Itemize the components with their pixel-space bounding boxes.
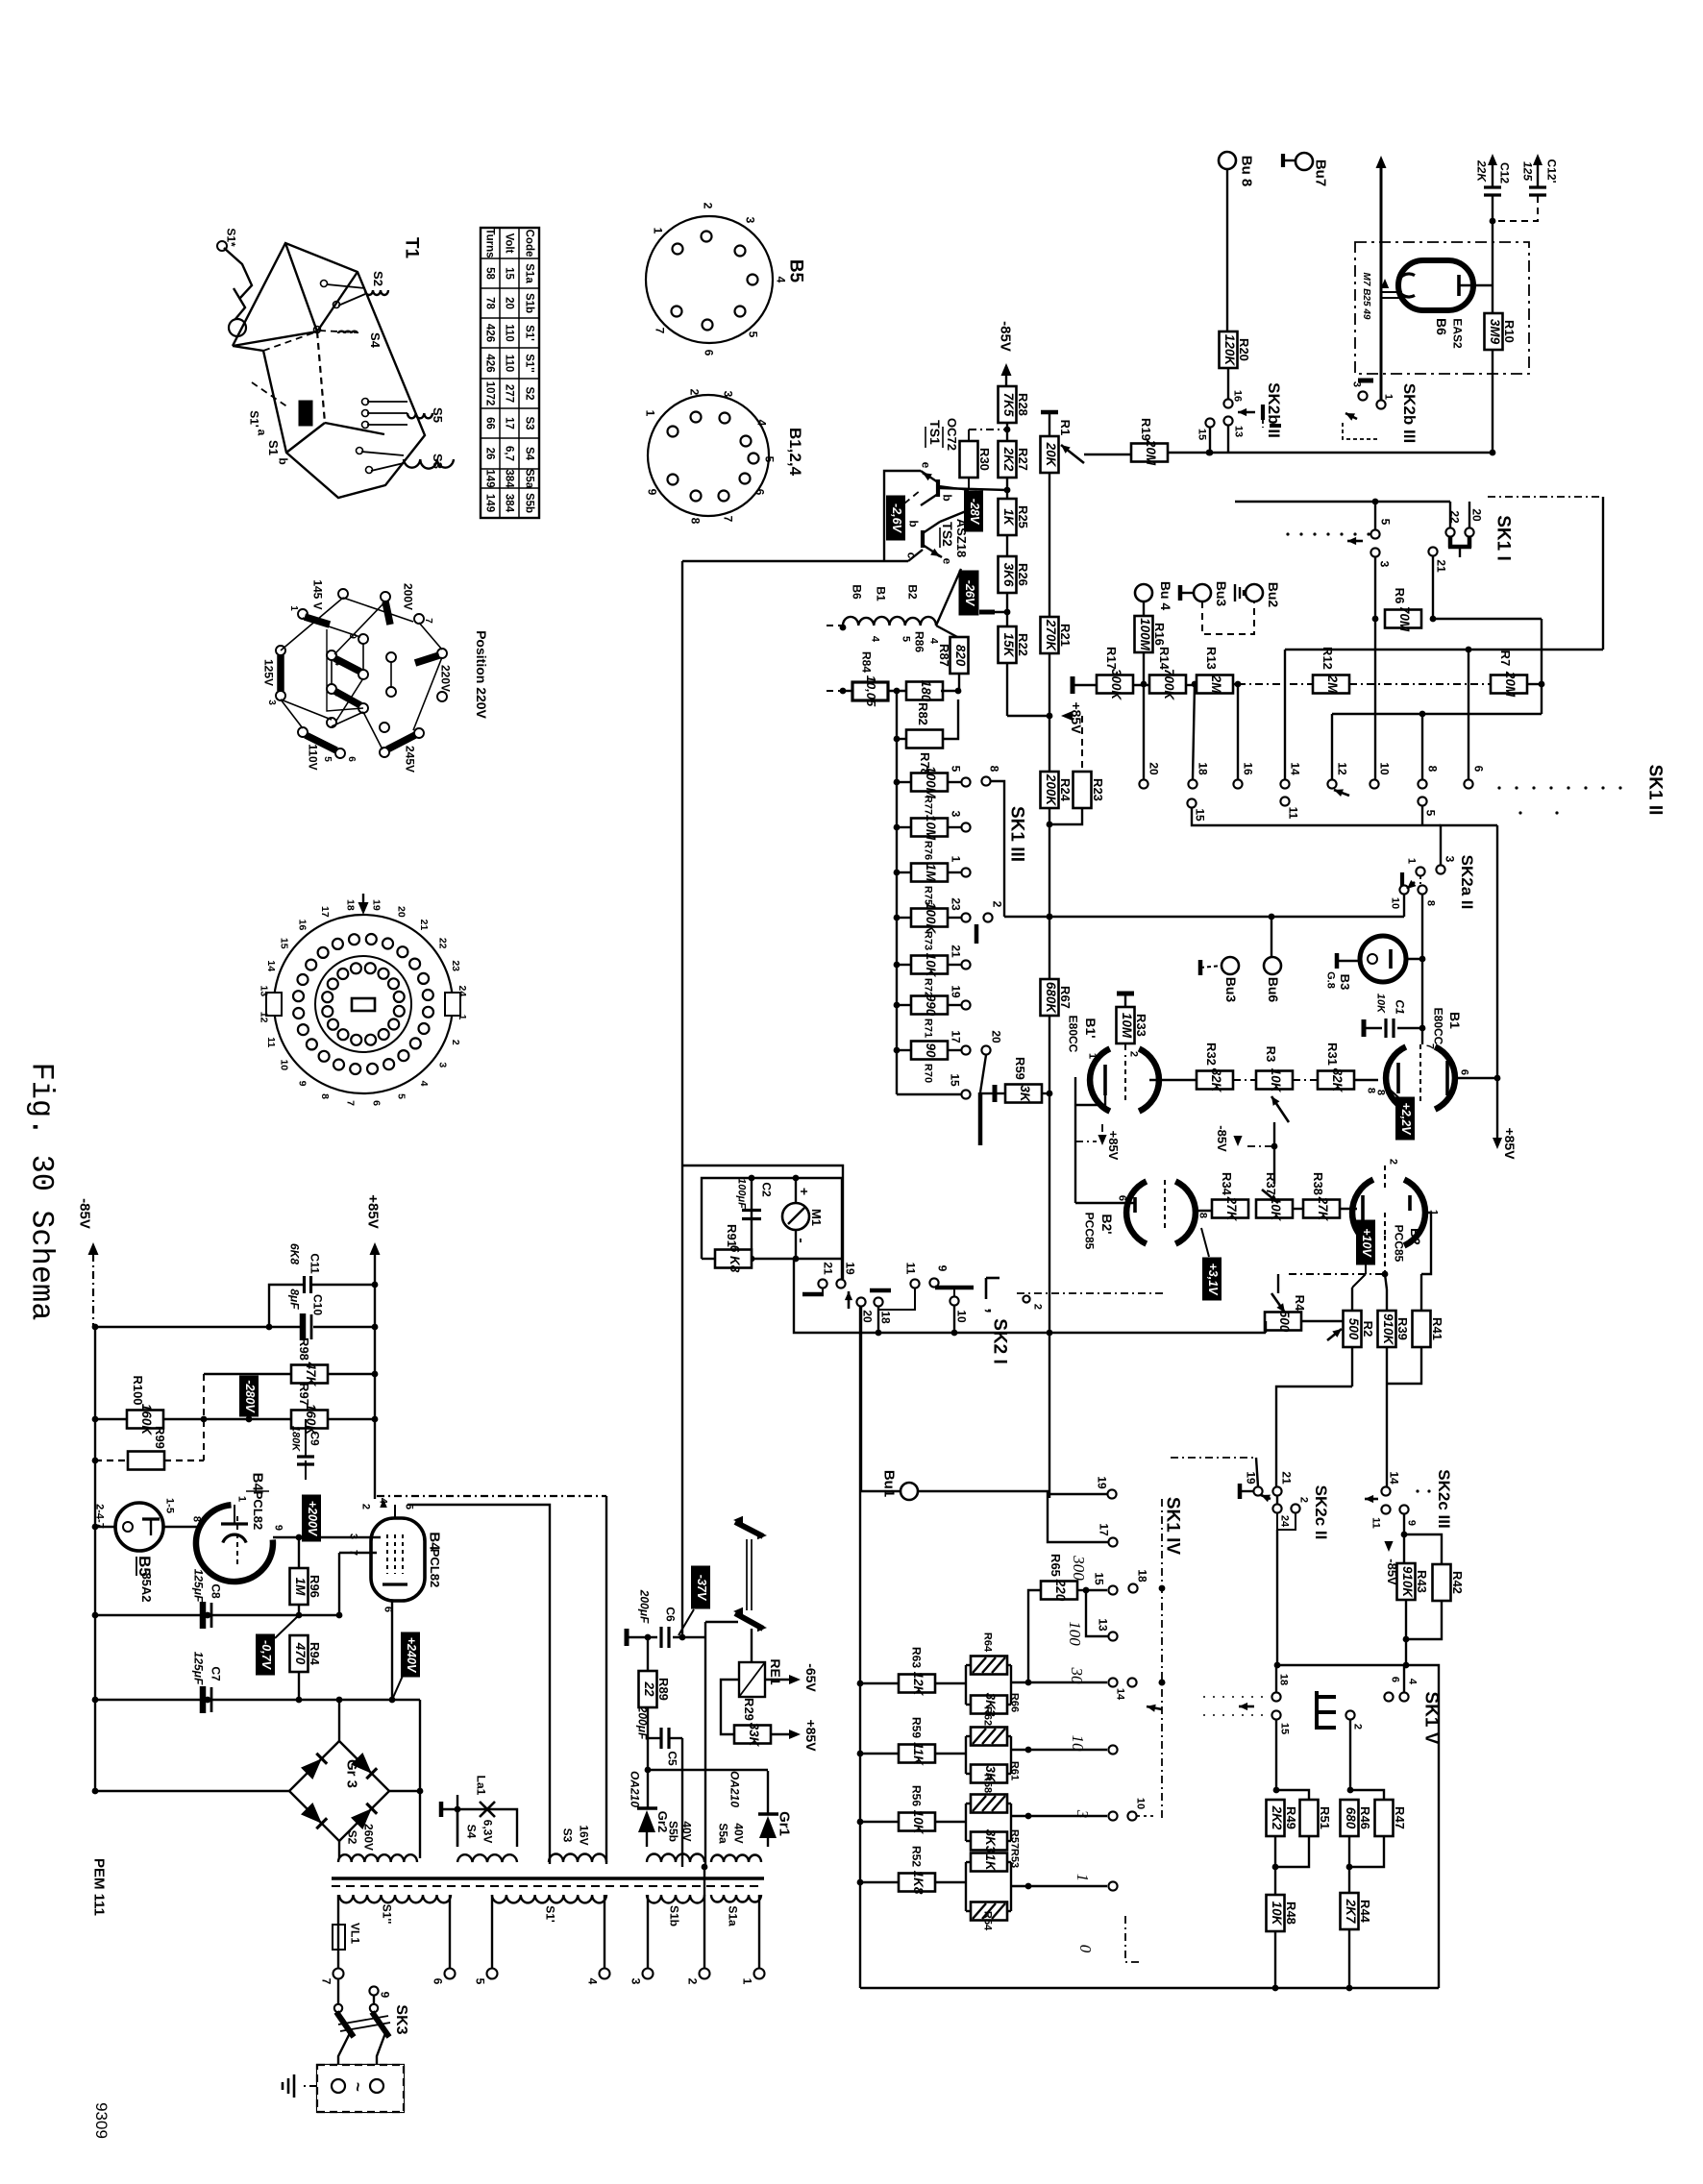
terminal Bu7	[1296, 153, 1313, 170]
+85V bus wire	[374, 1254, 376, 1499]
svg-text:18: 18	[1278, 1674, 1290, 1685]
svg-text:4: 4	[418, 1081, 430, 1087]
wire C11 row	[269, 1285, 303, 1327]
bottom bus wire	[860, 1987, 1439, 1989]
resistor R37 potentiometer	[1256, 1200, 1293, 1218]
parallel trimmer pair R59	[965, 1736, 967, 1774]
svg-text:R49: R49	[1284, 1806, 1298, 1829]
svg-text:B1: B1	[874, 586, 887, 601]
svg-text:125μF: 125μF	[191, 1569, 205, 1603]
svg-text:R3: R3	[1264, 1046, 1278, 1063]
contact 1 SK1 III	[961, 868, 970, 876]
contact 5 SK1 IV	[1108, 1881, 1117, 1890]
contact 7 SK1 IV	[1108, 1811, 1117, 1820]
svg-text:C9: C9	[308, 1431, 321, 1446]
resistor R48	[1267, 1895, 1285, 1931]
svg-text:R59: R59	[1013, 1057, 1027, 1080]
contact 13 SK1 IV	[1108, 1632, 1117, 1640]
svg-text:Bu 8: Bu 8	[1239, 156, 1255, 187]
wire contact 6 vertical	[1468, 650, 1469, 779]
meter enclosure box	[702, 1178, 842, 1259]
svg-text:1: 1	[1383, 394, 1394, 400]
wire S3 S4 secondary ends	[457, 1809, 458, 1847]
wire TS1 emitter loop	[884, 471, 921, 561]
voltage stabiliser tube B5 85A2	[115, 1503, 163, 1551]
svg-text:S5b: S5b	[524, 493, 535, 513]
resistor R34	[1212, 1200, 1248, 1218]
svg-text:R66: R66	[1009, 1693, 1021, 1712]
svg-text:125: 125	[1520, 161, 1534, 181]
svg-text:20M: 20M	[1503, 671, 1518, 698]
svg-text:1: 1	[1406, 858, 1418, 864]
svg-text:22K: 22K	[1474, 160, 1488, 183]
svg-text:M1: M1	[809, 1209, 824, 1226]
svg-text:6: 6	[702, 350, 715, 356]
transformer T1 pictorial	[233, 243, 425, 498]
svg-text:12K: 12K	[911, 1672, 926, 1697]
wire contact 4 up	[1403, 1665, 1405, 1692]
svg-text:2: 2	[360, 1504, 372, 1509]
svg-text:90: 90	[924, 1043, 938, 1058]
svg-text:10K: 10K	[924, 953, 938, 978]
terminal bar R17	[1071, 676, 1075, 694]
svg-text:-26V: -26V	[963, 580, 976, 607]
svg-text:La1: La1	[474, 1776, 487, 1796]
svg-text:2: 2	[1128, 1051, 1140, 1057]
wire bridge dc+	[389, 1790, 420, 1792]
resistor R32	[1197, 1071, 1233, 1090]
wire R1 wiper row	[1084, 454, 1132, 455]
resistor R52	[860, 1881, 899, 1883]
voltage +240V box	[402, 1632, 420, 1677]
triode B4a PCL82	[196, 1505, 273, 1582]
resistor R21	[1041, 617, 1059, 653]
wire Bu8 down	[1226, 169, 1228, 331]
svg-text:B2: B2	[905, 584, 919, 600]
svg-text:B2': B2'	[1099, 1214, 1115, 1234]
svg-text:10: 10	[954, 1310, 968, 1323]
svg-text:20: 20	[396, 906, 407, 918]
svg-text:M7 B25 49: M7 B25 49	[1361, 273, 1371, 320]
resistor R33 10M	[1117, 992, 1134, 996]
svg-text:-0,7V: -0,7V	[259, 1640, 273, 1671]
svg-text:10: 10	[278, 1059, 289, 1070]
triode B1a E80CC	[1090, 1048, 1110, 1111]
resistor R46	[1341, 1800, 1359, 1836]
switch SK2a II	[1436, 865, 1444, 873]
svg-text:+: +	[797, 1188, 812, 1195]
resistor R25	[999, 499, 1017, 535]
dashed link Bu3 Bu2	[1202, 601, 1254, 634]
resistor R17	[1097, 675, 1133, 694]
svg-text:58: 58	[484, 267, 496, 280]
svg-text:110: 110	[504, 355, 515, 373]
svg-text:15: 15	[1092, 1572, 1105, 1585]
svg-text:149: 149	[484, 469, 496, 487]
svg-text:20K: 20K	[1044, 442, 1058, 468]
svg-text:SK3: SK3	[393, 2004, 409, 2034]
svg-text:S2: S2	[524, 386, 535, 400]
wire C8 row	[95, 1614, 339, 1616]
wire contact 2 down to R46	[1349, 1720, 1351, 1790]
wire R98 row	[204, 1373, 291, 1375]
svg-text:3: 3	[436, 1062, 448, 1067]
switch SK2b III	[1358, 391, 1367, 400]
svg-text:e: e	[940, 558, 953, 565]
svg-text:19: 19	[949, 985, 962, 998]
svg-text:3: 3	[266, 699, 277, 705]
wire Bu1 to SK1 IV	[918, 1491, 1108, 1542]
winding S5a 40V	[711, 1855, 761, 1862]
svg-text:Bu1: Bu1	[881, 1470, 898, 1497]
winding S2 260V	[338, 1854, 417, 1862]
terminal bar C6	[625, 1629, 629, 1646]
svg-text:R38: R38	[1311, 1172, 1325, 1195]
resistor R82	[906, 682, 943, 700]
potentiometer R1	[1041, 410, 1058, 415]
svg-text:11K: 11K	[911, 1742, 926, 1766]
switch SK1 I contacts	[1370, 529, 1379, 538]
svg-text:C8: C8	[209, 1583, 222, 1599]
svg-text:4: 4	[1407, 1679, 1419, 1685]
svg-text:R30: R30	[977, 448, 992, 471]
heater rail 16V	[407, 1505, 550, 1864]
svg-text:1: 1	[651, 228, 664, 234]
svg-text:B1: B1	[1447, 1012, 1463, 1029]
svg-text:B3: B3	[1338, 974, 1352, 991]
resistor R38	[1293, 1208, 1303, 1210]
wire R6 node to R7 node	[1433, 618, 1542, 620]
svg-text:S5a: S5a	[716, 1823, 729, 1844]
svg-text:VL1: VL1	[348, 1923, 361, 1944]
resistor R99	[128, 1452, 164, 1470]
svg-text:8: 8	[987, 766, 1000, 773]
contact 9 SK1 IV	[1108, 1745, 1117, 1754]
wire choke to R87 and TS2	[936, 626, 959, 638]
svg-text:C2: C2	[759, 1182, 773, 1197]
svg-text:S1b: S1b	[524, 293, 535, 313]
svg-text:15: 15	[1193, 808, 1206, 822]
svg-text:PCL82: PCL82	[251, 1491, 265, 1530]
svg-text:C6: C6	[663, 1607, 677, 1622]
SK1 V contacts	[1384, 1692, 1393, 1701]
rotary voltage selector diagram	[338, 589, 348, 599]
svg-text:16: 16	[1232, 390, 1244, 402]
svg-text:OA210: OA210	[728, 1771, 741, 1807]
svg-text:S1a: S1a	[726, 1905, 739, 1926]
connector centre key	[352, 998, 375, 1011]
svg-text:R44: R44	[1358, 1900, 1372, 1924]
svg-text:b: b	[940, 494, 953, 501]
parallel trimmer pair R52	[965, 1862, 967, 1911]
svg-text:RE1: RE1	[768, 1658, 783, 1684]
svg-text:R97: R97	[297, 1383, 311, 1406]
svg-text:Gr2: Gr2	[655, 1811, 670, 1832]
svg-text:R10: R10	[1502, 320, 1517, 343]
dash-dot row R12 R7	[1238, 683, 1313, 685]
wire contact 20 to Bu1	[861, 1307, 901, 1491]
svg-text:R21: R21	[1058, 624, 1073, 647]
svg-text:10K: 10K	[911, 1810, 926, 1835]
wire R30 dash link	[969, 429, 1007, 430]
svg-text:T1: T1	[401, 237, 421, 259]
wire bridge left to bus	[95, 1790, 289, 1792]
triode B2a PCC85	[1126, 1181, 1147, 1243]
svg-text:85A2: 85A2	[139, 1572, 154, 1602]
terminal Bu3 upper	[1178, 585, 1183, 601]
resistor R70	[911, 1042, 948, 1060]
resistor R26	[999, 556, 1017, 593]
svg-text:17: 17	[1097, 1523, 1110, 1536]
SK1 V E-bars	[1315, 1691, 1319, 1730]
svg-text:EAS2: EAS2	[1450, 318, 1464, 349]
contact 21 SK1 III	[961, 960, 970, 969]
switch SK1 V frame	[1277, 1665, 1439, 1988]
svg-text:E80CC: E80CC	[1066, 1016, 1079, 1053]
T1 winding S2 leads	[365, 290, 388, 295]
svg-text:910K: 910K	[1400, 1566, 1415, 1599]
svg-text:26: 26	[484, 448, 496, 460]
voltage +200V box	[303, 1495, 321, 1541]
contact 19 SK1 III	[961, 1000, 970, 1009]
wire +85V node	[1007, 715, 1049, 717]
svg-text:1: 1	[1087, 1053, 1098, 1059]
svg-text:15: 15	[504, 267, 515, 280]
svg-text:B1,2,4: B1,2,4	[786, 428, 804, 477]
resistor R44	[1341, 1893, 1359, 1929]
svg-text:+2,2V: +2,2V	[1399, 1102, 1413, 1136]
svg-text:20: 20	[1147, 762, 1160, 775]
resistor R56	[860, 1821, 899, 1823]
svg-text:70M: 70M	[1397, 606, 1412, 632]
svg-text:1: 1	[1074, 1874, 1092, 1882]
tube B6 EAS2	[1398, 260, 1473, 310]
svg-text:Fig. 30 Schema: Fig. 30 Schema	[23, 1063, 59, 1321]
svg-text:1M: 1M	[924, 864, 938, 883]
wire B6 cathode to SK2bIII line	[1380, 295, 1383, 400]
svg-text:Bu 4: Bu 4	[1158, 581, 1173, 611]
resistor R51	[1300, 1800, 1319, 1836]
+85V arrow right	[1493, 1138, 1502, 1149]
svg-text:10M: 10M	[1120, 1013, 1134, 1039]
svg-text:R77: R77	[923, 796, 934, 815]
svg-text:R65: R65	[1049, 1554, 1063, 1577]
wire B5 leads	[95, 1526, 115, 1528]
resistor R75	[911, 864, 948, 882]
voltage -280V	[240, 1376, 259, 1416]
wire contact 14 vertical	[1284, 650, 1286, 779]
voltage -0,7V box	[257, 1634, 275, 1675]
svg-text:R33: R33	[1134, 1014, 1148, 1037]
svg-text:100μF: 100μF	[736, 1178, 748, 1209]
svg-text:2: 2	[990, 901, 1003, 908]
switch SK1 II contact row	[1139, 779, 1148, 788]
svg-text:22: 22	[436, 938, 448, 949]
svg-text:270K: 270K	[1044, 619, 1058, 652]
socket B5 bottom view	[646, 216, 773, 343]
resistor R72	[911, 956, 948, 974]
resistor R12	[1313, 675, 1349, 694]
wire relay to node	[705, 1621, 738, 1623]
contact 14 SK1 IV	[1127, 1678, 1136, 1686]
svg-text:-65V: -65V	[803, 1663, 819, 1692]
resistor R24	[1041, 772, 1059, 808]
wire second row 15	[1192, 808, 1441, 825]
svg-text:300K: 300K	[1109, 669, 1123, 701]
SK1 I dash-dot top right	[1488, 496, 1603, 498]
capacitor C7	[200, 1686, 207, 1713]
relay contact blades RE1	[735, 1522, 763, 1536]
svg-text:R20: R20	[1237, 338, 1251, 361]
svg-text:2: 2	[1032, 1304, 1044, 1310]
svg-text:R84: R84	[859, 651, 873, 673]
svg-text:20: 20	[989, 1030, 1002, 1043]
svg-text:C5: C5	[665, 1751, 679, 1766]
SK1 I shorting bar	[1448, 536, 1453, 548]
svg-text:24: 24	[1279, 1515, 1291, 1528]
resistor R100	[127, 1411, 163, 1429]
svg-text:R2: R2	[1361, 1321, 1375, 1337]
svg-text:R48: R48	[1284, 1902, 1298, 1925]
resistor R14	[1149, 675, 1186, 694]
svg-text:19: 19	[370, 899, 382, 911]
wire contact3 down to R6	[1374, 557, 1376, 779]
svg-text:SK1 I: SK1 I	[1493, 515, 1513, 561]
svg-text:a: a	[255, 429, 268, 436]
svg-text:S5: S5	[431, 407, 445, 423]
svg-text:27K: 27K	[1224, 1196, 1239, 1222]
resistor R98	[291, 1365, 328, 1384]
wire B1a anode row	[1149, 1079, 1197, 1081]
svg-text:C7: C7	[209, 1666, 222, 1681]
svg-text:SK2b II: SK2b II	[1265, 382, 1283, 438]
svg-text:20: 20	[860, 1310, 874, 1323]
resistor R43	[1397, 1563, 1416, 1600]
svg-text:160K: 160K	[139, 1404, 154, 1436]
wire bridge top corner	[338, 1700, 340, 1741]
svg-text:S1*: S1*	[224, 228, 237, 247]
svg-text:3: 3	[1377, 561, 1391, 568]
wire R99 dashed row	[95, 1460, 128, 1461]
svg-text:Turns: Turns	[484, 228, 496, 258]
terminal Bu2	[1246, 584, 1263, 601]
svg-text:4: 4	[333, 660, 343, 666]
svg-text:2K7: 2K7	[1344, 1899, 1358, 1925]
wire C10 row	[95, 1326, 302, 1328]
svg-text:SK1 IV: SK1 IV	[1162, 1497, 1182, 1556]
svg-text:S3: S3	[560, 1828, 574, 1843]
svg-text:R25: R25	[1016, 505, 1030, 528]
svg-text:21: 21	[949, 945, 962, 958]
svg-text:C11: C11	[308, 1253, 321, 1274]
svg-text:5: 5	[746, 331, 759, 338]
svg-text:R17: R17	[1104, 647, 1119, 670]
svg-text:~: ~	[349, 2082, 367, 2092]
wire B4 cathode	[391, 1601, 393, 1700]
svg-text:200V: 200V	[401, 583, 414, 610]
svg-text:3: 3	[348, 1534, 359, 1539]
wire contact 12 vertical	[1331, 714, 1333, 779]
svg-text:277: 277	[504, 384, 515, 403]
+85V arrow mid	[1098, 1135, 1106, 1145]
svg-text:5: 5	[1378, 519, 1392, 526]
contact 10 SK1 IV	[1127, 1811, 1136, 1820]
svg-text:680: 680	[1344, 1807, 1358, 1829]
svg-text:125V: 125V	[261, 659, 275, 686]
svg-text:5: 5	[1423, 810, 1437, 817]
resistor R65	[1041, 1582, 1077, 1600]
svg-text:1: 1	[236, 1496, 248, 1502]
svg-text:14: 14	[1387, 1471, 1400, 1485]
dash-dot into SK2c	[1171, 1457, 1254, 1459]
svg-text:21: 21	[1279, 1471, 1293, 1485]
svg-text:S1': S1'	[524, 325, 535, 341]
capacitor C1	[1362, 1019, 1367, 1037]
voltage -37V box	[692, 1566, 710, 1608]
svg-text:S4: S4	[368, 332, 383, 349]
voltage +3,1V box	[1203, 1258, 1222, 1300]
svg-text:17: 17	[949, 1030, 962, 1043]
resistor R47	[1375, 1800, 1394, 1836]
winding S5b 40V	[647, 1854, 704, 1863]
svg-text:9: 9	[1406, 1520, 1418, 1526]
svg-text:R57: R57	[1009, 1829, 1021, 1849]
wiper junction node	[1273, 1122, 1275, 1184]
-85V arrow SK2c	[1384, 1541, 1393, 1552]
resistor R7	[1491, 675, 1527, 694]
svg-text:R89: R89	[656, 1678, 671, 1701]
svg-text:TS1: TS1	[927, 420, 943, 445]
svg-text:R67: R67	[1058, 986, 1073, 1009]
svg-text:R73: R73	[923, 931, 934, 950]
terminal Bu1	[901, 1483, 918, 1500]
resistor R59	[860, 1753, 899, 1755]
svg-text:Bu6: Bu6	[1266, 977, 1281, 1003]
resistor R67 680K	[1041, 979, 1059, 1016]
wire long row y676	[1285, 649, 1603, 650]
resistor R6	[1385, 610, 1421, 628]
resistor R49	[1267, 1800, 1285, 1836]
svg-text:220V: 220V	[438, 665, 452, 692]
svg-text:R71: R71	[923, 1018, 934, 1038]
svg-text:B6: B6	[1434, 318, 1449, 335]
svg-text:2M: 2M	[1209, 675, 1223, 695]
svg-text:B5: B5	[785, 259, 805, 283]
svg-text:b: b	[906, 520, 920, 527]
SK2 I wiper arrow	[848, 1291, 851, 1309]
svg-text:5: 5	[762, 456, 776, 463]
svg-text:14: 14	[1288, 762, 1301, 775]
svg-text:1-5: 1-5	[164, 1498, 176, 1513]
svg-text:9: 9	[297, 1081, 309, 1087]
capacitor C2	[751, 1178, 753, 1259]
contact 20 SK1 III	[981, 1045, 990, 1054]
winding data table	[481, 228, 539, 518]
svg-text:R98: R98	[297, 1337, 311, 1361]
svg-text:E80CC: E80CC	[1431, 1008, 1444, 1045]
resistor R30	[960, 441, 978, 478]
svg-text:4: 4	[870, 636, 881, 643]
svg-text:5: 5	[901, 636, 912, 642]
winding S1b primary	[647, 1895, 704, 1903]
svg-text:3: 3	[949, 811, 962, 818]
svg-text:2: 2	[1298, 1497, 1310, 1503]
svg-text:Volt: Volt	[504, 233, 515, 254]
pentode B4 PCL82	[371, 1518, 425, 1601]
svg-text:S3: S3	[431, 454, 445, 469]
svg-text:+85V: +85V	[1106, 1131, 1121, 1161]
resistor R96	[290, 1568, 309, 1605]
